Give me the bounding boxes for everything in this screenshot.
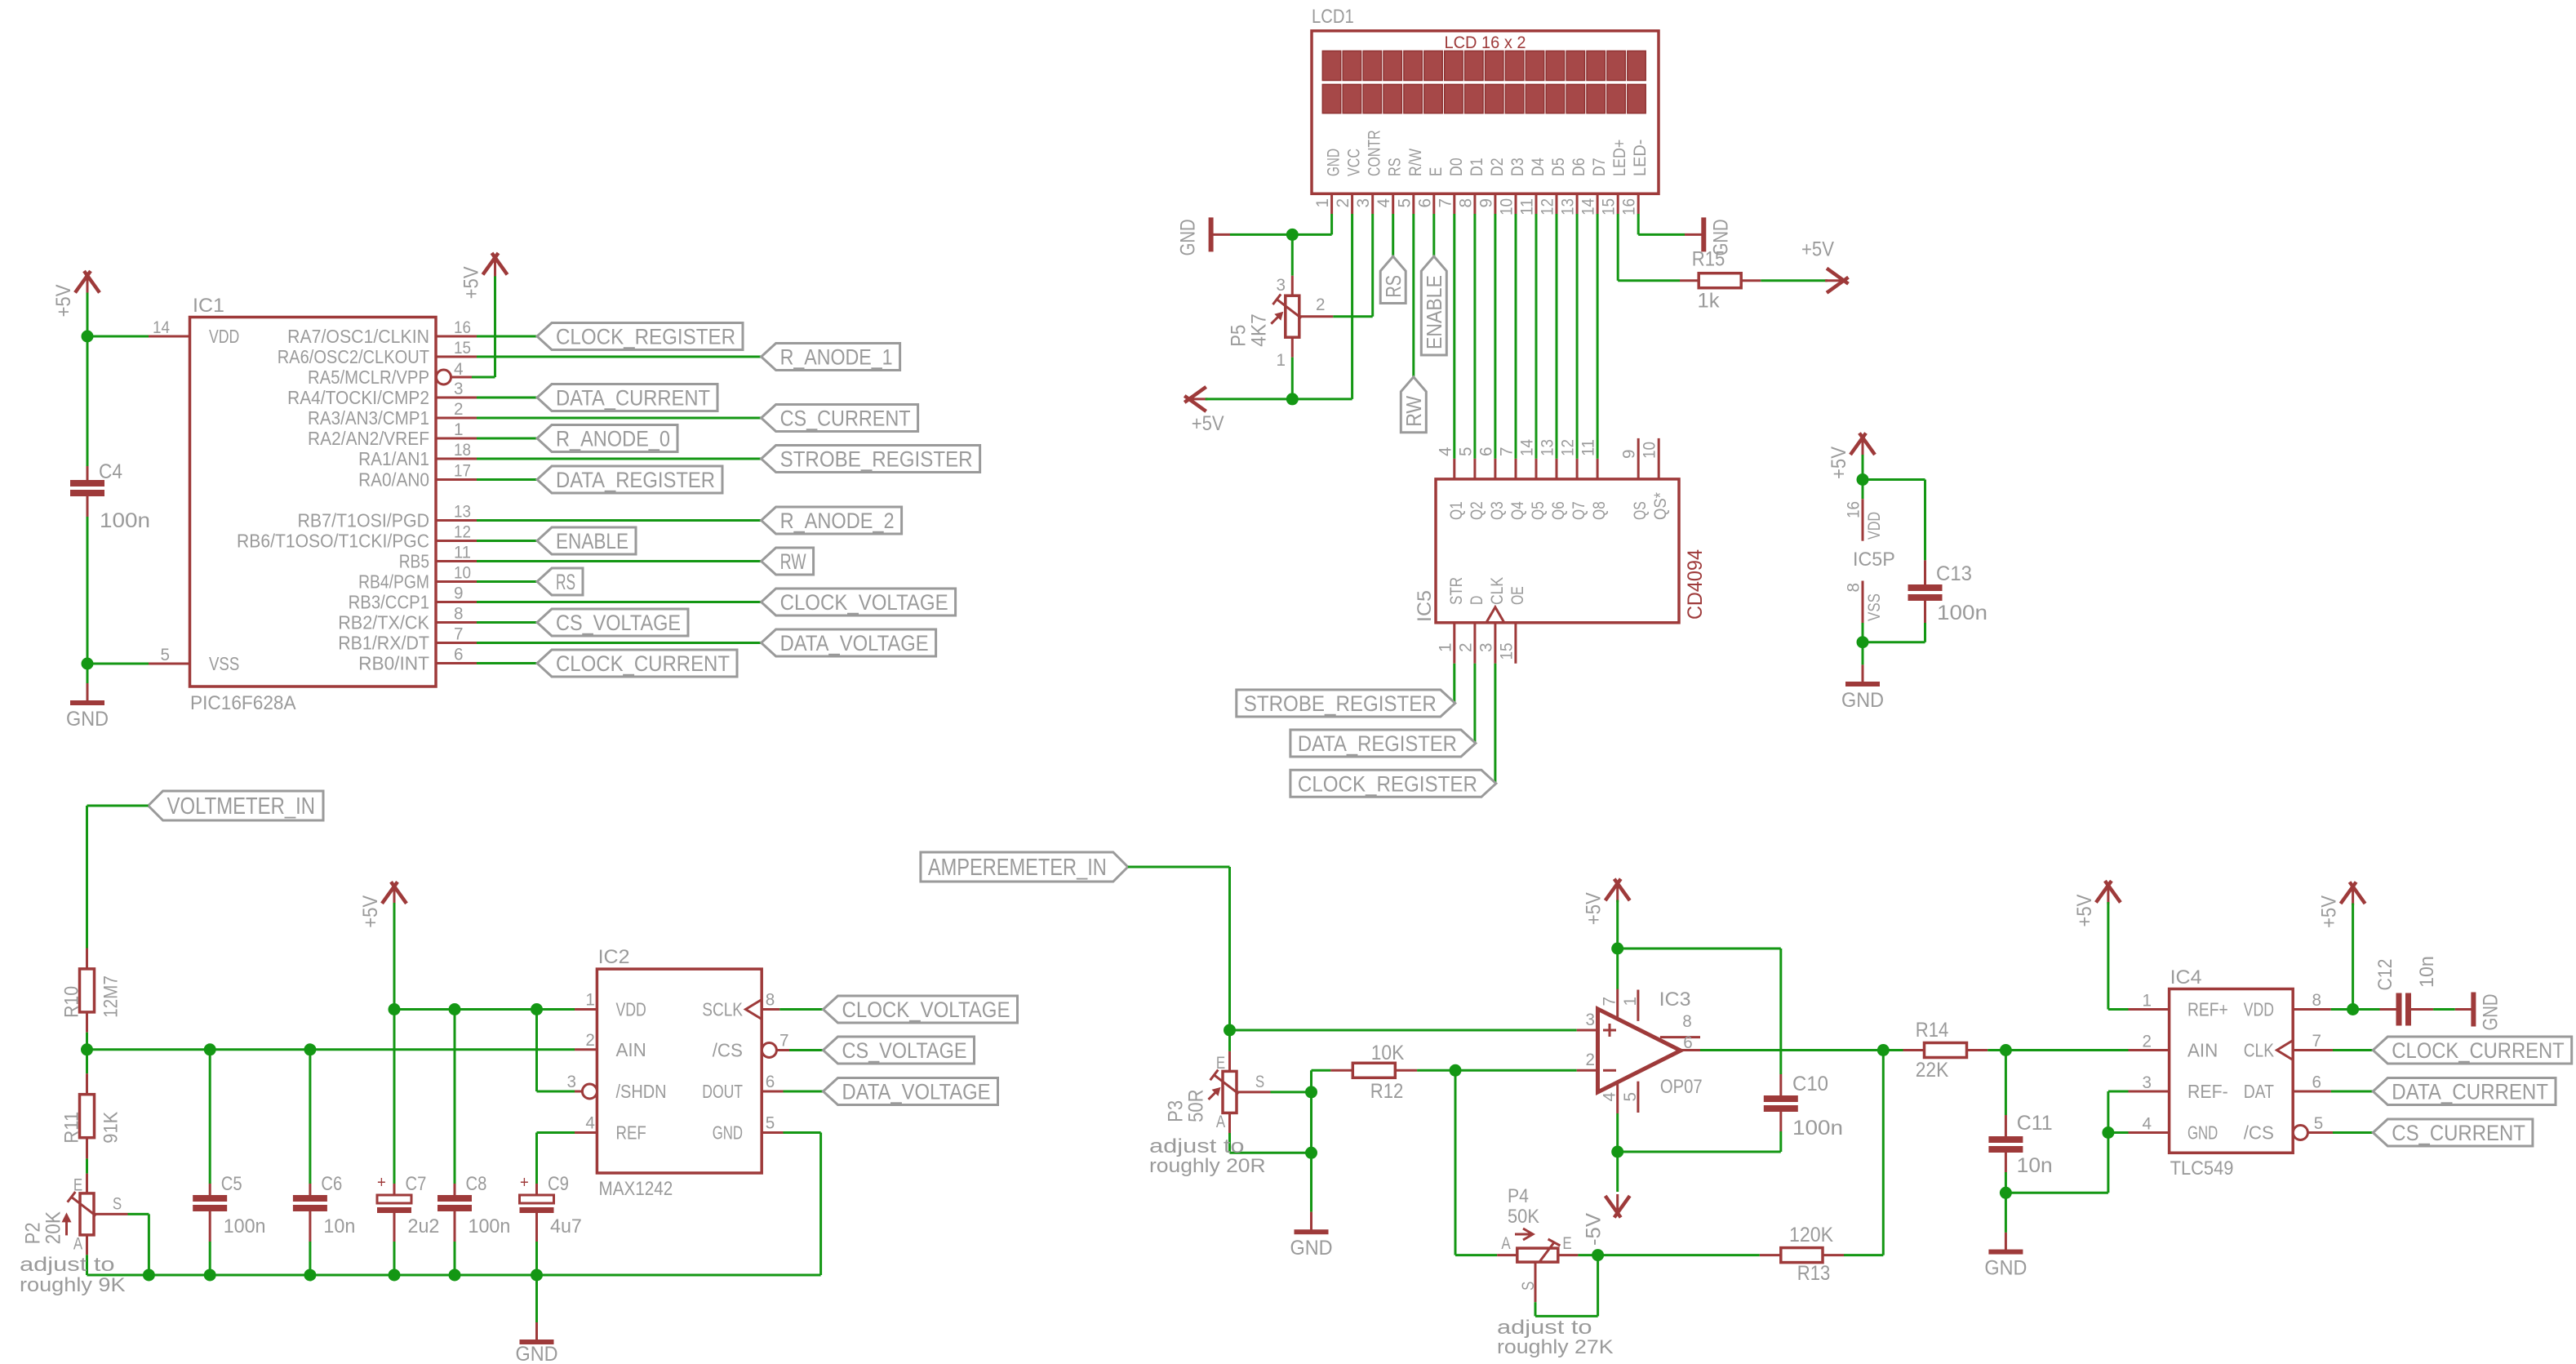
svg-text:CD4094: CD4094 bbox=[1684, 549, 1707, 620]
junction C8/VDD bbox=[449, 1003, 461, 1015]
wire STROBE_REGISTER bbox=[477, 458, 762, 460]
ground stub bbox=[1310, 1212, 1312, 1233]
svg-text:OE: OE bbox=[1508, 586, 1527, 605]
wire REF pin bbox=[537, 1131, 575, 1134]
IC3 pin 4 V- stub bbox=[1616, 1082, 1619, 1113]
svg-text:REF: REF bbox=[616, 1122, 646, 1144]
node RW bbox=[762, 548, 814, 575]
wire LCD D1 to IC5 bbox=[1473, 214, 1476, 459]
svg-text:RW: RW bbox=[780, 549, 806, 574]
ground GND IC5P bbox=[1845, 682, 1880, 686]
svg-text:R12: R12 bbox=[1370, 1080, 1404, 1103]
svg-text:RS: RS bbox=[1386, 158, 1405, 176]
op IC5 CD4094 body bbox=[1436, 479, 1679, 623]
svg-text:Q2: Q2 bbox=[1468, 501, 1486, 520]
svg-text:5: 5 bbox=[1456, 447, 1475, 457]
svg-text:10: 10 bbox=[1498, 198, 1517, 215]
svg-text:/CS: /CS bbox=[2244, 1122, 2274, 1144]
svg-text:5: 5 bbox=[766, 1114, 775, 1133]
svg-text:CS_VOLTAGE: CS_VOLTAGE bbox=[556, 611, 681, 635]
svg-text:C4: C4 bbox=[99, 460, 122, 483]
svg-text:8: 8 bbox=[454, 605, 464, 624]
wire R12 to -input bbox=[1417, 1069, 1455, 1072]
ground stub bbox=[1862, 664, 1864, 684]
svg-text:13: 13 bbox=[1559, 198, 1578, 215]
svg-text:9: 9 bbox=[1620, 450, 1639, 460]
svg-text:+5V: +5V bbox=[1828, 447, 1850, 479]
svg-text:R_ANODE_2: R_ANODE_2 bbox=[780, 509, 895, 533]
wire cap bottom bbox=[454, 1242, 456, 1275]
svg-text:ENABLE: ENABLE bbox=[1422, 275, 1446, 349]
svg-text:D5: D5 bbox=[1549, 158, 1568, 176]
wire LCD D0 to IC5 bbox=[1453, 214, 1455, 459]
svg-text:8: 8 bbox=[766, 991, 775, 1010]
junction GND/P5 bbox=[1286, 229, 1299, 241]
power +5V IC1 left bbox=[87, 275, 89, 295]
wire P5 pin1 to +5V rail bbox=[1291, 358, 1294, 399]
svg-text:E: E bbox=[1562, 1234, 1571, 1253]
power +5V right of R15 bbox=[1825, 279, 1845, 282]
wire to R14 bbox=[1883, 1049, 1903, 1051]
svg-text:C7: C7 bbox=[406, 1173, 427, 1195]
wire GND rail bbox=[1230, 233, 1332, 236]
resistor R12 bbox=[1352, 1063, 1395, 1077]
svg-text:13: 13 bbox=[454, 503, 471, 522]
svg-text:Q4: Q4 bbox=[1508, 501, 1527, 520]
wire R_ANODE_2 bbox=[477, 519, 762, 522]
svg-text:STROBE_REGISTER: STROBE_REGISTER bbox=[780, 447, 973, 471]
wire P4 E bbox=[1578, 1254, 1597, 1256]
capacitor C13 bbox=[1924, 560, 1926, 584]
junction V- rail bbox=[1611, 1146, 1623, 1158]
svg-text:A: A bbox=[1216, 1113, 1225, 1131]
svg-text:6: 6 bbox=[766, 1073, 775, 1091]
pin stub P2 bottom bbox=[86, 1235, 88, 1255]
svg-text:QS*: QS* bbox=[1651, 492, 1670, 520]
capacitor C10 bbox=[1779, 1074, 1782, 1095]
power +5V above IC4 bbox=[2107, 885, 2109, 904]
pin stub P3 top bbox=[1228, 1051, 1231, 1072]
wire P2 wiper bbox=[128, 1213, 149, 1215]
svg-text:1: 1 bbox=[1436, 643, 1455, 653]
IC3 pin 2 stub bbox=[1577, 1069, 1598, 1072]
wire CS_CURRENT bbox=[477, 417, 762, 420]
wire to VDD pin bbox=[1862, 480, 1864, 500]
svg-text:3: 3 bbox=[454, 380, 464, 398]
wire +5V to C10 bbox=[1618, 948, 1781, 950]
svg-text:RA7/OSC1/CLKIN: RA7/OSC1/CLKIN bbox=[287, 326, 429, 347]
svg-text:R11: R11 bbox=[61, 1112, 83, 1144]
svg-text:2: 2 bbox=[1456, 643, 1475, 653]
IC3 pin 6 output stub bbox=[1681, 1049, 1700, 1051]
wire CS_CURRENT bbox=[2333, 1131, 2373, 1134]
svg-text:S: S bbox=[113, 1194, 122, 1213]
power -5V below IC3 bbox=[1616, 1194, 1619, 1214]
svg-text:3: 3 bbox=[1354, 198, 1373, 208]
potentiometer P4 bbox=[1517, 1248, 1558, 1262]
svg-text:8: 8 bbox=[1682, 1012, 1692, 1031]
svg-text:16: 16 bbox=[454, 318, 471, 337]
wire +5V down bbox=[2107, 902, 2109, 1010]
svg-text:4u7: 4u7 bbox=[550, 1215, 582, 1237]
svg-text:15: 15 bbox=[454, 339, 471, 358]
wire CONTR down to P5 wiper bbox=[1371, 214, 1374, 317]
svg-text:CLOCK_VOLTAGE: CLOCK_VOLTAGE bbox=[780, 590, 948, 615]
P4 diagonal bbox=[1539, 1242, 1554, 1262]
wire R10 to AIN node bbox=[86, 1033, 88, 1050]
wire LED- down bbox=[1637, 214, 1640, 234]
svg-text:LCD1: LCD1 bbox=[1312, 6, 1354, 28]
wire P4 to R13 bbox=[1598, 1254, 1760, 1256]
node AMPEREMETER_IN bbox=[921, 852, 1128, 882]
svg-text:7: 7 bbox=[2312, 1032, 2322, 1051]
svg-text:CLOCK_CURRENT: CLOCK_CURRENT bbox=[556, 651, 730, 676]
wire P3 wiper bbox=[1271, 1091, 1312, 1093]
svg-text:GND: GND bbox=[66, 708, 109, 731]
P4 arrow bbox=[1515, 1233, 1532, 1236]
IC5 pin 5 Q2 bbox=[1473, 459, 1476, 479]
svg-text:12M7: 12M7 bbox=[100, 975, 122, 1018]
wire DATA_CURRENT bbox=[2331, 1091, 2373, 1093]
svg-text:S: S bbox=[1255, 1073, 1264, 1091]
wire VDD to SHDN bbox=[535, 1010, 538, 1092]
svg-text:RB7/T1OSI/PGD: RB7/T1OSI/PGD bbox=[298, 510, 430, 531]
svg-text:3: 3 bbox=[1477, 643, 1495, 653]
IC3 pin 8 stub bbox=[1660, 1036, 1700, 1038]
svg-text:R10: R10 bbox=[61, 986, 83, 1018]
svg-text:100n: 100n bbox=[1937, 602, 1988, 624]
power +5V above IC3 bbox=[1616, 882, 1619, 902]
wire cap top bbox=[309, 1050, 311, 1184]
node ENABLE bbox=[1421, 256, 1446, 355]
wire C4 to GND node bbox=[87, 517, 89, 664]
svg-text:10n: 10n bbox=[323, 1215, 355, 1237]
junction IC5P VSS bbox=[1857, 636, 1869, 648]
pin stub R11 bottom bbox=[86, 1138, 88, 1158]
node DATA_REGISTER bbox=[537, 466, 722, 493]
svg-text:D2: D2 bbox=[1488, 158, 1507, 176]
IC5 pin 2 D bbox=[1473, 623, 1476, 664]
svg-text:IC1: IC1 bbox=[193, 295, 224, 317]
node RS bbox=[537, 568, 583, 595]
wire P5 wiper to CONTR bbox=[1333, 315, 1372, 318]
wire GND rail bottom bbox=[87, 1274, 821, 1277]
svg-text:GND: GND bbox=[1841, 689, 1884, 712]
svg-text:1: 1 bbox=[2143, 992, 2152, 1011]
pin stubs P4 bbox=[1497, 1254, 1517, 1256]
junction P3/+input bbox=[1224, 1024, 1236, 1037]
wire C11 top bbox=[2005, 1051, 2007, 1116]
svg-text:C10: C10 bbox=[1792, 1073, 1828, 1095]
svg-text:91K: 91K bbox=[100, 1112, 122, 1144]
svg-text:50K: 50K bbox=[1508, 1206, 1539, 1228]
potentiometer P3 bbox=[1223, 1071, 1237, 1113]
capacitor C5 bbox=[209, 1184, 211, 1195]
wire VDD net bbox=[394, 1008, 575, 1011]
node DATA_REGISTER bbox=[1290, 730, 1476, 757]
node CLOCK_REGISTER bbox=[1290, 770, 1496, 797]
resistor R15 bbox=[1699, 273, 1741, 288]
ground stub bbox=[87, 683, 89, 703]
node VOLTMETER_IN bbox=[149, 791, 323, 820]
svg-text:roughly 9K: roughly 9K bbox=[20, 1274, 126, 1296]
svg-text:LED-: LED- bbox=[1631, 140, 1650, 176]
svg-text:IC3: IC3 bbox=[1659, 989, 1691, 1011]
wire RA5 to +5V bbox=[472, 376, 495, 379]
svg-text:3: 3 bbox=[567, 1073, 577, 1091]
svg-text:C9: C9 bbox=[548, 1173, 569, 1195]
wire up to REF- bbox=[2107, 1091, 2109, 1193]
wire +5V down bbox=[2352, 904, 2354, 1010]
svg-text:7: 7 bbox=[779, 1032, 789, 1051]
svg-text:roughly 27K: roughly 27K bbox=[1497, 1336, 1614, 1358]
wire R_ANODE_0 bbox=[477, 438, 537, 440]
node DATA_CURRENT bbox=[2373, 1078, 2556, 1105]
node DATA_CURRENT bbox=[537, 384, 717, 411]
wire STR to STROBE_REGISTER bbox=[1453, 664, 1455, 704]
svg-text:5: 5 bbox=[161, 646, 171, 664]
pin stubs R14 bbox=[1903, 1049, 1925, 1051]
svg-text:8: 8 bbox=[1845, 583, 1863, 593]
svg-text:3: 3 bbox=[1277, 276, 1286, 295]
wire AIN net bbox=[87, 1048, 575, 1051]
wire R_ANODE_1 bbox=[477, 356, 762, 358]
junction out/R13 bbox=[1877, 1044, 1890, 1056]
power +5V LCD rail bbox=[1188, 398, 1208, 400]
wire GND pin bbox=[784, 1131, 821, 1134]
svg-text:VSS: VSS bbox=[1865, 593, 1884, 621]
wire LED- to GND bbox=[1638, 233, 1685, 236]
svg-text:11: 11 bbox=[1579, 439, 1598, 456]
node CLOCK_VOLTAGE bbox=[762, 589, 956, 615]
svg-text:CLOCK_CURRENT: CLOCK_CURRENT bbox=[2392, 1038, 2564, 1063]
svg-text:6: 6 bbox=[1683, 1033, 1693, 1052]
svg-text:VSS: VSS bbox=[209, 653, 239, 674]
op IC1 PIC16F628A body bbox=[190, 318, 437, 687]
wire GND down to rail bbox=[819, 1133, 822, 1276]
junction C8 GND bbox=[449, 1269, 461, 1282]
wire cap bottom bbox=[209, 1242, 211, 1275]
svg-text:RB2/TX/CK: RB2/TX/CK bbox=[338, 612, 429, 633]
wire up to +5V bbox=[494, 274, 496, 377]
node CS_VOLTAGE bbox=[824, 1037, 975, 1064]
wire R/W pin down bbox=[1412, 214, 1415, 377]
junction C11/GND bbox=[2000, 1187, 2012, 1199]
svg-text:IC5: IC5 bbox=[1414, 590, 1436, 622]
wire REF+ pin bbox=[2108, 1008, 2129, 1011]
wire AMPEREMETER_IN bbox=[1128, 866, 1230, 869]
svg-text:SCLK: SCLK bbox=[702, 999, 743, 1020]
svg-text:7: 7 bbox=[1498, 447, 1517, 457]
wire LCD GND pin down bbox=[1330, 214, 1333, 234]
IC5 pin 10 QS* bbox=[1658, 438, 1660, 479]
svg-text:CLOCK_REGISTER: CLOCK_REGISTER bbox=[1298, 771, 1477, 796]
svg-text:D0: D0 bbox=[1447, 158, 1466, 176]
node CS_VOLTAGE bbox=[537, 609, 688, 636]
wire CLOCK_CURRENT bbox=[477, 662, 537, 664]
pin stub P3 bottom bbox=[1228, 1113, 1231, 1133]
wire wiper down bbox=[148, 1214, 150, 1275]
svg-text:PIC16F628A: PIC16F628A bbox=[190, 692, 296, 714]
svg-text:100n: 100n bbox=[1792, 1117, 1843, 1140]
svg-text:17: 17 bbox=[454, 462, 471, 481]
wire bbox=[87, 293, 89, 337]
capacitor C11 bbox=[2005, 1115, 2007, 1136]
ground GND under C11 bbox=[1988, 1250, 2023, 1255]
ground stub bbox=[1685, 233, 1703, 236]
pin 14 stub bbox=[149, 335, 190, 338]
op IC2 MAX1242 body bbox=[597, 969, 762, 1173]
wire wiper down bbox=[1534, 1302, 1537, 1316]
wire LCD D6 to IC5 bbox=[1576, 214, 1579, 459]
wire CLOCK_CURRENT bbox=[2333, 1049, 2373, 1051]
svg-text:+: + bbox=[520, 1174, 529, 1192]
svg-text:QS: QS bbox=[1631, 501, 1650, 520]
svg-text:100n: 100n bbox=[224, 1215, 266, 1237]
svg-text:IC4: IC4 bbox=[2170, 966, 2202, 989]
svg-text:Q8: Q8 bbox=[1590, 501, 1609, 520]
svg-text:C5: C5 bbox=[221, 1173, 242, 1195]
node CLOCK_VOLTAGE bbox=[824, 996, 1018, 1023]
svg-text:1: 1 bbox=[454, 420, 464, 439]
svg-text:E: E bbox=[1216, 1054, 1225, 1073]
svg-text:+5V: +5V bbox=[2073, 894, 2096, 926]
svg-text:+5V: +5V bbox=[2318, 895, 2341, 928]
capacitor C8 bbox=[454, 1184, 456, 1195]
wire loop up bbox=[1597, 1255, 1599, 1317]
wire R14 right bbox=[1988, 1049, 2005, 1051]
wire R12 left elbow bbox=[1310, 1070, 1312, 1092]
wire VOLTMETER_IN bbox=[87, 805, 149, 807]
IC5 pin 12 Q7 bbox=[1576, 459, 1579, 479]
junction P4/R13 bbox=[1592, 1249, 1604, 1261]
wire cap bottom bbox=[535, 1242, 538, 1275]
wire GND pin bbox=[2108, 1131, 2129, 1134]
IC5 pin 13 Q6 bbox=[1556, 459, 1558, 479]
ground stub bbox=[535, 1322, 538, 1342]
wire LED+ to R15 bbox=[1618, 279, 1680, 282]
node RW bbox=[1401, 377, 1426, 433]
svg-text:10n: 10n bbox=[2017, 1154, 2053, 1177]
svg-text:3: 3 bbox=[2143, 1073, 2152, 1092]
svg-text:Q5: Q5 bbox=[1529, 501, 1548, 520]
junction -input/P4 bbox=[1450, 1064, 1462, 1077]
svg-text:RA6/OSC2/CLKOUT: RA6/OSC2/CLKOUT bbox=[278, 346, 429, 367]
wire CS_VOLTAGE bbox=[477, 621, 537, 624]
wire LCD D5 to IC5 bbox=[1556, 214, 1558, 459]
svg-text:5: 5 bbox=[2314, 1114, 2324, 1133]
svg-text:18: 18 bbox=[454, 441, 471, 460]
wire CS_VOLTAGE bbox=[789, 1049, 824, 1051]
node CLOCK_CURRENT bbox=[537, 650, 737, 677]
svg-text:D4: D4 bbox=[1529, 158, 1548, 176]
svg-text:D: D bbox=[1468, 596, 1486, 605]
svg-text:CS_CURRENT: CS_CURRENT bbox=[780, 406, 911, 430]
svg-text:2: 2 bbox=[1334, 198, 1352, 208]
svg-text:IC2: IC2 bbox=[598, 946, 630, 968]
wire to R11 bbox=[86, 1050, 88, 1073]
svg-text:100n: 100n bbox=[469, 1215, 511, 1237]
svg-text:DATA_VOLTAGE: DATA_VOLTAGE bbox=[842, 1079, 991, 1104]
junction VDD node bbox=[82, 331, 94, 343]
node R_ANODE_1 bbox=[762, 344, 900, 371]
svg-text:1: 1 bbox=[585, 991, 595, 1010]
wire ENABLE bbox=[477, 540, 537, 542]
wire IC3 out bbox=[1700, 1049, 1883, 1051]
svg-text:DATA_CURRENT: DATA_CURRENT bbox=[2392, 1079, 2548, 1104]
wire down to C13 bbox=[1924, 480, 1926, 561]
svg-text:7: 7 bbox=[1601, 997, 1619, 1006]
svg-text:VDD: VDD bbox=[1865, 512, 1884, 540]
svg-text:RA4/TOCKI/CMP2: RA4/TOCKI/CMP2 bbox=[287, 387, 429, 408]
svg-text:R14: R14 bbox=[1916, 1019, 1949, 1042]
svg-text:1: 1 bbox=[1621, 997, 1640, 1006]
wire C10 top bbox=[1779, 949, 1782, 1074]
svg-text:6: 6 bbox=[1477, 447, 1495, 457]
wire wiper down bbox=[1310, 1092, 1312, 1153]
svg-text:5: 5 bbox=[1395, 198, 1414, 208]
wire down to P4 bbox=[1455, 1070, 1457, 1255]
IC3 pin 7 V+ stub bbox=[1616, 989, 1619, 1021]
potentiometer P2 bbox=[80, 1193, 94, 1235]
node R_ANODE_2 bbox=[762, 507, 902, 534]
node CS_CURRENT bbox=[762, 405, 918, 432]
clock marker IC5 CLK bbox=[1486, 607, 1504, 623]
svg-text:14: 14 bbox=[1579, 198, 1598, 215]
wire R15 to +5V bbox=[1761, 279, 1828, 282]
svg-text:MAX1242: MAX1242 bbox=[599, 1178, 673, 1200]
node ENABLE bbox=[537, 527, 636, 554]
wire VDD to +5V bbox=[2331, 1008, 2353, 1011]
node DATA_VOLTAGE bbox=[824, 1078, 998, 1105]
svg-text:Q1: Q1 bbox=[1447, 501, 1466, 520]
wire C10 bottom bbox=[1779, 1131, 1782, 1152]
svg-text:9: 9 bbox=[1477, 198, 1495, 208]
svg-text:2: 2 bbox=[454, 400, 464, 419]
junction C9 GND bbox=[531, 1269, 543, 1282]
svg-text:C12: C12 bbox=[2374, 959, 2396, 991]
resistor R14 bbox=[1925, 1043, 1967, 1058]
resistor R10 bbox=[80, 969, 95, 1012]
wire to IC3 +input bbox=[1230, 1029, 1577, 1032]
wire cap bottom bbox=[393, 1242, 396, 1275]
junction R10/R11 bbox=[81, 1043, 93, 1055]
svg-text:4: 4 bbox=[585, 1114, 595, 1133]
wire LCD D4 to IC5 bbox=[1535, 214, 1538, 459]
IC5 pin 3 CLK bbox=[1494, 623, 1496, 664]
svg-text:R/W: R/W bbox=[1406, 149, 1425, 176]
wire DATA_CURRENT bbox=[477, 397, 537, 399]
svg-text:E: E bbox=[1427, 167, 1446, 176]
svg-text:VCC: VCC bbox=[1345, 149, 1364, 176]
ground GND right of LCD bbox=[1701, 217, 1706, 251]
svg-text:-5V: -5V bbox=[1583, 1213, 1606, 1246]
svg-text:VOLTMETER_IN: VOLTMETER_IN bbox=[167, 793, 315, 820]
svg-text:GND: GND bbox=[713, 1122, 743, 1144]
capacitor C7 bbox=[393, 1184, 396, 1195]
svg-text:S: S bbox=[1519, 1282, 1538, 1291]
svg-text:13: 13 bbox=[1539, 439, 1557, 456]
svg-text:15: 15 bbox=[1600, 198, 1619, 215]
svg-text:6: 6 bbox=[1415, 198, 1434, 208]
svg-text:OP07: OP07 bbox=[1660, 1076, 1703, 1098]
wire +5V down bbox=[1862, 455, 1864, 480]
wire to P3 bbox=[1228, 1030, 1231, 1051]
svg-text:16: 16 bbox=[1845, 501, 1863, 518]
node DATA_VOLTAGE bbox=[762, 629, 936, 656]
svg-text:C11: C11 bbox=[2017, 1112, 2053, 1135]
wire wiper loop bbox=[1535, 1315, 1598, 1317]
